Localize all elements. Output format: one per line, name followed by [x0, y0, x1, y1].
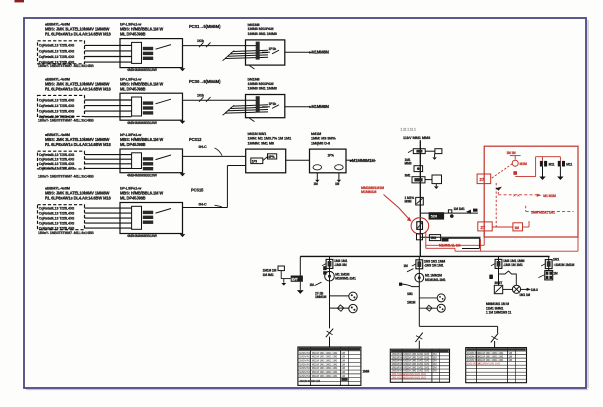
red dashed control line (lower) [525, 206, 527, 212]
svg-text:M1M3M1-1M1: M1M3M1-1M1 [335, 277, 356, 281]
box B VT ground drops [316, 173, 318, 180]
row 2: collection box (cubicle) [246, 95, 285, 118]
svg-text:ML DP45J98B: ML DP45J98B [120, 32, 146, 37]
row 1: PCS power conditioner box U1 [120, 39, 183, 68]
red annotation arrow [384, 195, 410, 220]
svg-text:CqReta8L13 T/25L4X8: CqReta8L13 T/25L4X8 [39, 109, 75, 113]
cubicle box A (PCS13/15 switchboard) [246, 149, 286, 173]
row 1: collection box earth tick [250, 66, 255, 69]
LBS switch on bus [416, 197, 424, 205]
red link relay to contact [492, 226, 513, 228]
table 2 row lines [390, 352, 449, 354]
svg-text:-1M3 3M: -1M3 3M [334, 263, 347, 267]
svg-text:CqReta8L13 T/25L4X8: CqReta8L13 T/25L4X8 [39, 153, 75, 157]
row 4: PCS frame ground [182, 210, 184, 235]
svg-text:M1MM1M: M1MM1M [361, 190, 376, 194]
svg-text:CqReta8L13 T/25L4X8: CqReta8L13 T/25L4X8 [39, 98, 75, 102]
svg-text:bM1M M3/1: bM1M M3/1 [248, 132, 267, 136]
feeder 3 PF fuse box [494, 285, 502, 293]
svg-text:4MB4M3M3BB18W: 4MB4M3M3BB18W [127, 234, 158, 238]
svg-text:1M: 1M [314, 182, 319, 186]
svg-text:MM3: MM3 [405, 161, 412, 165]
row 1: outgoing wire and destination label [285, 51, 310, 53]
svg-text:1B8aY- 1MB3T8TMM7 -M1L:3x14BB: 1B8aY- 1MB3T8TMM7 -M1L:3x14BB [38, 64, 94, 68]
svg-text:1MM1M: 1MM1M [315, 295, 327, 299]
svg-text:PCS1→5(MM5M): PCS1→5(MM5M) [189, 24, 221, 29]
row 3: PCS inner module rects [143, 157, 153, 160]
feeder 3 bypass bridge wire with switch bump [499, 271, 517, 286]
svg-text:RL 6LP8x4W1s DL4.A0:14.6BW M18: RL 6LP8x4W1s DL4.A0:14.6BW M18 [45, 32, 111, 37]
feeder 1 CT [323, 266, 326, 270]
svg-text:1MM: M3 3M%: 1MM: M3 3M% [311, 137, 336, 141]
table 3 column dividers [476, 348, 478, 383]
svg-text:1M 3M1: 1M 3M1 [263, 273, 274, 277]
feeder 4 VT (4-quadrant box) [545, 271, 553, 280]
grid-interconnection breaker on bus (red circled) [417, 222, 423, 230]
EVT earthing transformer [291, 276, 303, 282]
metering tap (lower) to relay box [420, 236, 480, 238]
row 4: PCS inner module rects [143, 211, 153, 214]
black stub inside panel bottom [478, 238, 480, 248]
svg-text:1M1: 1M1 [553, 257, 559, 261]
row 4: PCS output breaker (switch blade) [156, 209, 172, 214]
row 1: OH cable marks on wire [199, 42, 204, 47]
svg-text:1B8aY- 1MB3T8TMM7 -M1L:3x14BB: 1B8aY- 1MB3T8TMM7 -M1L:3x14BB [38, 174, 94, 178]
svg-text:1MM8 3M1 1MM8: 1MM8 3M1 1MM8 [248, 32, 278, 36]
feeder 1 second CT mark [323, 271, 326, 274]
svg-text:27: 27 [480, 225, 485, 230]
svg-text:CqReta8L13 T/25L4X8: CqReta8L13 T/25L4X8 [39, 44, 75, 48]
UVR relay 27 (upper, red) [477, 174, 491, 184]
svg-text:M11: M11 [566, 162, 572, 166]
feeder 2 metering branch 2 [419, 307, 437, 309]
svg-text:1M/(M8 D-8: 1M/(M8 D-8 [311, 141, 331, 145]
row 2: PCS inner DC/AC block [132, 97, 142, 116]
svg-text:M11M 1M1 1M11 1M1: M11M 1M1 1M11 1M1 [312, 374, 338, 378]
feeder 2 lower hook wire [402, 284, 420, 287]
EVT branch: bus drop [299, 256, 301, 275]
svg-text:CqReta8L13 T/25L4X8: CqReta8L13 T/25L4X8 [39, 221, 75, 225]
row 1: collection bus bar [256, 42, 260, 60]
svg-text:ML DP45J98B: ML DP45J98B [120, 86, 146, 91]
svg-text:ML DP45J98B: ML DP45J98B [120, 142, 146, 147]
svg-text:1MM: M1 1M3.7% 1M 1M1: 1MM: M1 1M3.7% 1M 1M1 [248, 137, 293, 141]
svg-text:0H-C: 0H-C [199, 202, 207, 206]
feeder 1 metering branch 1 [330, 295, 349, 297]
row 1: PCS output breaker (switch blade) [156, 45, 172, 50]
row 2: PV string terminal box (dashed) [38, 95, 85, 116]
DS auxiliary box + ground [425, 150, 435, 152]
svg-text:▸M1MM8M: ▸M1MM8M [309, 49, 330, 54]
row 2: PCS power conditioner box U2 [120, 93, 183, 120]
CT on bus [414, 166, 423, 172]
box A inner breaker rects [251, 158, 263, 164]
relay output contact (red) [513, 223, 523, 231]
svg-text:bM1M8: bM1M8 [248, 77, 260, 81]
svg-text:3M1: 3M1 [405, 174, 411, 178]
svg-text:RL 6LP8x4W1s DL4.A0:14.6BW M18: RL 6LP8x4W1s DL4.A0:14.6BW M18 [45, 196, 111, 201]
aux CT 1 (black) + ground [540, 161, 543, 167]
table 3 outer border [466, 348, 527, 383]
svg-text:CqReta8L13 T/25L4X8: CqReta8L13 T/25L4X8 [39, 55, 75, 59]
row 2: PCS output breaker (switch blade) [156, 99, 172, 104]
row 4: PV string terminal box (dashed) [38, 205, 85, 230]
feeder 2 metering branch 1 [419, 297, 437, 299]
page corner mark (dark red dash top-left) [15, 0, 25, 2]
row 2: cable bundle (parallel feeders) [233, 105, 268, 106]
svg-text:M1M: M1M [520, 162, 527, 166]
row 1: PCS inner DC/AC block [132, 42, 142, 63]
feeder disconnector DS [495, 259, 502, 268]
main vertical HV bus [419, 140, 421, 256]
svg-text:× ×: × × [513, 193, 520, 198]
feeder disconnector DS [416, 260, 423, 269]
row 1: PCS inner module rects [143, 47, 153, 50]
row 3: PCS output breaker (switch blade) [156, 155, 172, 160]
feeder 3 station transformer (circle-X) [503, 288, 513, 290]
transformer switch below breaker [417, 234, 423, 240]
svg-text:RL 6LP8x4W1s DL4.A0:14.6BW M18: RL 6LP8x4W1s DL4.A0:14.6BW M18 [45, 142, 111, 147]
row 3: PCS power conditioner box U3 [120, 149, 183, 173]
svg-text:CqReta8L13 T/25L4X8: CqReta8L13 T/25L4X8 [39, 158, 75, 162]
relay contact (red circle) with T-bar [510, 155, 521, 157]
svg-text:1M: 1M [335, 182, 340, 186]
disconnect switch DS (top) [413, 149, 425, 154]
svg-text:CqReta8L13 T/25L4X8: CqReta8L13 T/25L4X8 [39, 216, 75, 220]
table 2 outer border [390, 349, 449, 382]
svg-text:1M: 1M [514, 226, 519, 230]
VCB aux box + ground [425, 179, 432, 181]
arrester ground [283, 279, 285, 283]
aux CT 2 (black) + ground [558, 161, 561, 167]
svg-text:4MB4M3M3BB18W: 4MB4M3M3BB18W [127, 173, 158, 177]
table 1 column dividers [310, 347, 312, 385]
svg-text:1 11 1 11 1: 1 11 1 11 1 [401, 127, 416, 131]
svg-text:1M: 1M [404, 264, 409, 268]
svg-text:PCS13: PCS13 [189, 137, 202, 142]
protection relay panel enclosure (red) [484, 146, 578, 237]
row 2: OH cable marks on wire [199, 97, 204, 102]
svg-text:▸M1MM8M: ▸M1MM8M [309, 104, 330, 109]
svg-text:0H-C: 0H-C [199, 145, 207, 149]
svg-text:ML DP45J98B: ML DP45J98B [120, 196, 146, 201]
row 2: collection box earth tick [250, 118, 255, 121]
svg-text:1P3: 1P3 [252, 159, 258, 163]
feeder 1 metering branch 2 with fuse [330, 307, 349, 309]
svg-text:1K/b: 1K/b [197, 94, 204, 98]
svg-text:3P%: 3P% [268, 155, 275, 159]
svg-text:1M1M: 1M1M [407, 300, 416, 304]
table 1 header row (dark) [299, 348, 360, 351]
svg-text:M11: M11 [549, 162, 555, 166]
svg-text:1P1b: 1P1b [269, 47, 277, 51]
feeder 2 aux tick [407, 269, 414, 272]
table 3 header row (dark) [467, 348, 526, 350]
row 1: cable bundle (parallel feeders) [233, 50, 268, 51]
table 1 row lines [298, 350, 361, 352]
svg-text:=1M1M 1M1M: =1M1M 1M1M [554, 263, 575, 267]
svg-text:bM1M8: bM1M8 [248, 23, 260, 27]
svg-text:1M: 1M [553, 272, 558, 276]
surge arrester branch [281, 278, 291, 280]
feeder 1 VCB circle [325, 271, 335, 281]
svg-text:52R: 52R [431, 215, 438, 219]
svg-text:M3M: M3M [405, 200, 412, 204]
LV main bus (horizontal) [300, 255, 549, 257]
feeder 1 outgoing switch to table 1 [326, 329, 333, 338]
svg-text:CqReta8L13 T/25L4X8: CqReta8L13 T/25L4X8 [39, 167, 75, 171]
row 3: PCS inner DC/AC block [132, 153, 142, 169]
svg-text:1M: 1M [310, 283, 315, 287]
table 3 row lines [466, 350, 527, 352]
svg-text:1MM M1M1 1M1: 1MM M1M1 1M1 [531, 210, 555, 214]
svg-text:1M1M M1: 1M1M M1 [299, 374, 311, 378]
svg-text:PCS6→8(MM4M): PCS6→8(MM4M) [189, 79, 221, 84]
table 1 outer border [298, 347, 361, 385]
svg-text:CqReta8L13 T/25L4X8: CqReta8L13 T/25L4X8 [39, 162, 75, 166]
relay contact lower dot [513, 171, 517, 175]
feeder 2 lower tie bus [419, 325, 497, 327]
UVR relay 27 (lower, red) [478, 222, 492, 231]
svg-text:1B8aY- 1MB3T8TMM7 -M1L:3x14BB: 1B8aY- 1MB3T8TMM7 -M1L:3x14BB [38, 231, 94, 235]
svg-text:CqReta8L13 T/25L4X8: CqReta8L13 T/25L4X8 [39, 211, 75, 215]
svg-text:-1M3 1M 1M1: -1M3 1M 1M1 [424, 264, 444, 268]
svg-text:PCS15: PCS15 [191, 187, 204, 192]
box B outgoing wire + label [346, 159, 352, 161]
row 4: PCS power conditioner box U4 [120, 203, 183, 234]
svg-text:1K/b: 1K/b [197, 39, 204, 43]
svg-text:4MB4M3M3BB18W: 4MB4M3M3BB18W [127, 121, 158, 125]
red dashed control line (middle) [497, 188, 499, 195]
feeder disconnector DS [326, 259, 333, 268]
svg-text:M11M1M 1M1 1M1: M11M1M 1M1 1M1 [478, 361, 501, 365]
svg-text:CqReta8L13 T/25L4X8: CqReta8L13 T/25L4X8 [39, 49, 75, 53]
feeder 2 VCB circle [415, 273, 424, 282]
box A to box B wire [286, 159, 310, 161]
row 3: PCS frame ground [182, 156, 184, 173]
svg-text:M1M1M1-1M1: M1M1M1-1M1 [425, 278, 446, 282]
red dashed link 27 to contact [492, 164, 513, 178]
VCB circuit breaker on bus [412, 177, 425, 183]
black line into relay panel [448, 237, 480, 239]
svg-text:-1M3 1M 1M1: -1M3 1M 1M1 [503, 263, 523, 267]
svg-text:1M 1M1: 1M 1M1 [454, 207, 465, 211]
feeder 3 CT [489, 275, 493, 279]
red wiring to auxiliary CTs [515, 176, 535, 178]
svg-text:1M 1M: 1M 1M [507, 151, 517, 155]
row 1: collection box (cubicle) [246, 40, 285, 65]
svg-text:1M1M 1M: 1M1M 1M [263, 269, 277, 273]
row 3: PV string terminal box (dashed) [38, 151, 85, 169]
svg-text:11kV MM1 MM3: 11kV MM1 MM3 [403, 135, 431, 140]
red dashed vertical (panel internal) [495, 183, 497, 228]
svg-text:1M1: 1M1 [407, 292, 413, 296]
svg-text:M1 M1M: M1 M1M [543, 194, 556, 198]
box B VT windings [313, 165, 322, 170]
svg-text:27: 27 [479, 177, 484, 182]
svg-text:1M1 1M: 1M1 1M [519, 293, 530, 297]
row 2: outgoing wire and destination label [285, 106, 310, 108]
svg-text:RL 6LP8x4W1s DL4.A0:14.6BW M18: RL 6LP8x4W1s DL4.A0:14.6BW M18 [45, 86, 111, 91]
svg-text:EVT: EVT [292, 277, 298, 281]
svg-text:M11M1M 1M1 1M1: M11M1M 1M1 1M1 [404, 375, 427, 379]
svg-text:bM1M: bM1M [311, 132, 321, 136]
svg-text:1MM8 MX/3%M: 1MM8 MX/3%M [248, 27, 274, 31]
row 1: PV string terminal box (dashed) [38, 41, 85, 64]
table 1 bottom-right dark cell [341, 378, 347, 381]
svg-text:1P1b: 1P1b [269, 102, 277, 106]
svg-text:CqReta8L13 T/25L4X8: CqReta8L13 T/25L4X8 [39, 206, 75, 210]
red control wires to relay panel [425, 232, 427, 248]
table 2 column dividers [401, 349, 403, 382]
row 4: PCS inner DC/AC block [132, 206, 142, 229]
52R feeder relay tap (upper) [420, 212, 478, 214]
svg-text:1 1M 1MM1M3 11: 1 1M 1MM1M3 11 [486, 311, 512, 315]
EVT ground [299, 282, 301, 290]
svg-text:1M1: 1M1 [430, 236, 436, 240]
row 1: PCS frame ground [182, 46, 184, 69]
svg-text:86-8T: 86-8T [495, 281, 503, 285]
tie switch to table 3 [497, 326, 499, 333]
svg-text:1P%: 1P% [328, 153, 335, 157]
red highlight ellipse [411, 218, 429, 234]
svg-text:CqReta8L13 T/25L4X8: CqReta8L13 T/25L4X8 [39, 104, 75, 108]
svg-text:1M1M M11M 1M: 1M1M M11M 1M [300, 379, 321, 383]
svg-text:4MB4M3M3BB18W: 4MB4M3M3BB18W [127, 68, 158, 72]
row 4: AC output wire (rises to join cubicle) [183, 207, 228, 209]
svg-text:CqReta8L13 T/25L4X8: CqReta8L13 T/25L4X8 [39, 226, 75, 230]
cubicle box B (metering) [310, 149, 347, 173]
svg-text:1MM8 3M1 1MM8: 1MM8 3M1 1MM8 [248, 86, 278, 90]
relay tap end contacts [466, 210, 471, 214]
svg-text:1M-3: 1M-3 [531, 288, 538, 292]
row 2: collection bus bar [256, 96, 260, 112]
black arrow marks on dashed vertical [496, 187, 502, 191]
svg-text:1MMM: 3M1 M8: 1MMM: 3M1 M8 [248, 141, 275, 145]
svg-text:1MM8 MX/3%M: 1MM8 MX/3%M [248, 82, 274, 86]
row 3: AC output wire to PCS13 cubicle [183, 155, 246, 157]
feeder disconnector DS [545, 260, 552, 269]
svg-text:▸M1MM8M1M-: ▸M1MM8M1M- [349, 158, 377, 163]
svg-text:1B8aY- 1MB3T8TMM7 -M1L:3x14BB: 1B8aY- 1MB3T8TMM7 -M1L:3x14BB [38, 119, 94, 123]
feeder 1 aux contact tick [315, 282, 322, 285]
svg-text:1MM: 1MM [363, 370, 370, 374]
row 2: PCS frame ground [182, 100, 184, 121]
row 2: PCS inner module rects [143, 101, 153, 104]
feeder 2 switch to table 2 [415, 333, 422, 342]
table 2 header row (dark) [391, 350, 449, 352]
